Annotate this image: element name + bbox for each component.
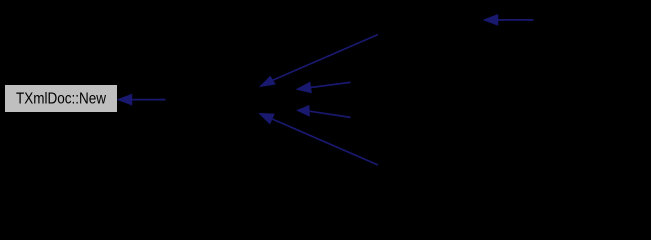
svg-text:TXmlDoc::New: TXmlDoc::New	[16, 91, 106, 108]
